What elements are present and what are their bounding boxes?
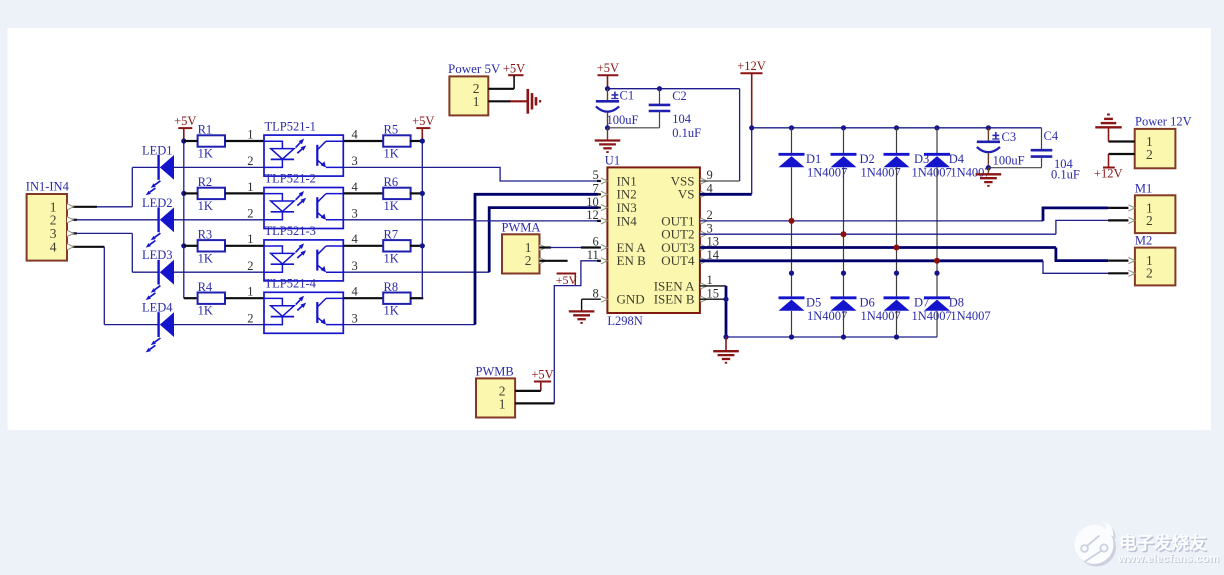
svg-text:ISEN B: ISEN B xyxy=(654,292,695,307)
svg-text:R2: R2 xyxy=(198,175,213,189)
junction top rail at diode column D3 xyxy=(894,125,899,130)
power +5V symbol on EN B net xyxy=(557,273,577,275)
svg-text:IN4: IN4 xyxy=(617,213,638,228)
svg-text:11: 11 xyxy=(587,248,599,262)
svg-text:LED3: LED3 xyxy=(142,248,173,262)
junction OUT1 at diode column D1 xyxy=(789,218,795,224)
svg-text:3: 3 xyxy=(352,259,358,273)
capacitor C1 100uF xyxy=(607,89,609,102)
wire diode column D4 xyxy=(936,167,938,297)
connector M1 xyxy=(1135,195,1176,233)
junction ground rail at ISEN column xyxy=(723,334,728,339)
junction +5V at C1 xyxy=(605,86,610,91)
svg-text:100uF: 100uF xyxy=(607,113,639,127)
wire stub PWMA pin2 (unconnected) xyxy=(540,260,568,262)
svg-text:1K: 1K xyxy=(198,251,213,265)
svg-text:C4: C4 xyxy=(1044,129,1059,143)
optocoupler TLP521-4 xyxy=(264,292,343,333)
svg-text:D8: D8 xyxy=(949,296,964,310)
svg-text:2: 2 xyxy=(247,311,253,325)
svg-text:VS: VS xyxy=(678,187,695,202)
junction at R5 xyxy=(420,138,425,143)
wire Power 5V pin1 to chassis ground xyxy=(488,100,511,102)
watermark logo elecfans xyxy=(1075,522,1117,567)
wire diode column D5 to ground rail xyxy=(791,311,793,337)
junction top rail at diode column D4 xyxy=(934,125,939,130)
resistor R5 1K xyxy=(383,135,410,146)
svg-text:M2: M2 xyxy=(1135,234,1152,248)
svg-text:2: 2 xyxy=(1146,213,1153,228)
svg-text:1: 1 xyxy=(247,232,253,246)
svg-text:L298N: L298N xyxy=(607,314,642,328)
wire R4 to optocoupler pin 1 xyxy=(225,297,264,299)
svg-text:4: 4 xyxy=(352,127,359,141)
optocoupler TLP521-1 xyxy=(264,135,343,176)
resistor R3 1K xyxy=(198,240,225,251)
wire LED2 to optocoupler pin 2 xyxy=(174,219,264,221)
svg-text:1N4007: 1N4007 xyxy=(807,309,847,323)
svg-text:1: 1 xyxy=(473,94,480,109)
junction +5V at C2 xyxy=(657,86,662,91)
svg-text:2: 2 xyxy=(1146,147,1153,162)
junction at R7 xyxy=(420,243,425,248)
junction OUT2 at diode column D2 xyxy=(841,231,847,237)
svg-text:1N4007: 1N4007 xyxy=(912,309,952,323)
svg-text:+12V: +12V xyxy=(1094,167,1123,181)
svg-text:Power 12V: Power 12V xyxy=(1135,115,1192,129)
capacitor C2 0.1uF xyxy=(659,89,661,105)
svg-text:3: 3 xyxy=(352,311,358,325)
wire IN1 net: connector pin1 to LED1 xyxy=(67,206,97,208)
ground below C3 xyxy=(987,168,989,175)
svg-text:电子发烧友: 电子发烧友 xyxy=(1119,533,1207,553)
wire LED1 to optocoupler pin 2 xyxy=(174,166,264,168)
junction OUT3 at diode column D3 xyxy=(894,245,900,251)
svg-text:D6: D6 xyxy=(860,296,875,310)
resistor R2 1K xyxy=(198,188,225,199)
wire R3 to optocoupler pin 1 xyxy=(225,245,264,247)
wire IN2 net: connector pin2 to LED2 xyxy=(67,219,77,221)
connector Power 5V xyxy=(449,76,488,115)
svg-text:M1: M1 xyxy=(1135,181,1152,195)
wire diode column D1 xyxy=(791,167,793,297)
junction dot on column D1 xyxy=(789,271,794,276)
svg-text:0.1uF: 0.1uF xyxy=(1051,168,1080,182)
svg-text:+5V: +5V xyxy=(556,273,578,287)
diode D8 1N4007 xyxy=(924,296,950,299)
svg-text:R5: R5 xyxy=(384,123,399,137)
svg-text:2: 2 xyxy=(1146,266,1153,281)
svg-text:LED1: LED1 xyxy=(142,143,173,157)
svg-text:3: 3 xyxy=(352,207,358,221)
diode D1 1N4007 xyxy=(791,128,793,155)
svg-text:www.elecfans.com: www.elecfans.com xyxy=(1117,553,1219,565)
wire net ch2: TLP521-2 pin3 to U1 IN2 xyxy=(343,219,475,221)
svg-text:3: 3 xyxy=(352,154,358,168)
svg-text:1: 1 xyxy=(247,285,253,299)
svg-text:+5V: +5V xyxy=(174,114,196,128)
wire +5V to R3 xyxy=(184,245,198,247)
svg-text:1: 1 xyxy=(499,396,506,411)
svg-text:1N4007: 1N4007 xyxy=(912,166,952,180)
svg-text:1N4007: 1N4007 xyxy=(807,166,847,180)
svg-text:1N4007: 1N4007 xyxy=(861,166,901,180)
svg-text:6: 6 xyxy=(593,235,599,249)
wire OUT3 net: U1 pin13 to M2 pin1 xyxy=(700,246,1056,249)
svg-text:2: 2 xyxy=(247,154,253,168)
svg-text:C3: C3 xyxy=(1002,130,1017,144)
junction ground rail at D6 xyxy=(841,334,846,339)
svg-text:15: 15 xyxy=(707,286,720,300)
wire OUT2 net: U1 pin3 to M1 pin2 xyxy=(700,233,1056,235)
svg-text:10: 10 xyxy=(586,195,599,209)
svg-text:2: 2 xyxy=(525,253,532,268)
svg-text:EN B: EN B xyxy=(617,253,647,268)
junction C1 bottom xyxy=(605,125,610,130)
junction on +5V rail at R2 xyxy=(181,191,186,196)
wire R1 to optocoupler pin 1 xyxy=(225,140,264,142)
svg-text:1N4007: 1N4007 xyxy=(950,309,990,323)
power +12V symbol at Power 12V pin2 xyxy=(1103,167,1115,169)
wire PWMA pin1 to U1 EN A xyxy=(540,246,552,248)
wire optocoupler pin 4 to R6 xyxy=(343,192,383,194)
svg-text:+5V: +5V xyxy=(412,114,434,128)
wire diode column D6 to ground rail xyxy=(843,311,845,337)
capacitor C4 0.1uF xyxy=(1041,128,1043,150)
svg-text:1: 1 xyxy=(247,127,253,141)
svg-text:8: 8 xyxy=(593,286,599,300)
wire Power 12V pin1 to ground xyxy=(1109,140,1135,142)
wire optocoupler pin 4 to R7 xyxy=(343,245,383,247)
wire +5V to R1 xyxy=(184,140,198,142)
svg-text:104: 104 xyxy=(672,112,692,126)
svg-text:IN1-IN4: IN1-IN4 xyxy=(26,180,70,194)
resistor R8 1K xyxy=(383,293,410,304)
svg-text:4: 4 xyxy=(352,285,359,299)
junction on +5V rail at R1 xyxy=(181,138,186,143)
wire +5V rail to VSS xyxy=(608,88,740,90)
svg-text:C1: C1 xyxy=(620,89,635,103)
svg-text:1N4007: 1N4007 xyxy=(861,309,901,323)
junction on +5V rail at R3 xyxy=(181,243,186,248)
junction dot on column D4 xyxy=(934,271,939,276)
wire C1 bottom to C2 bottom xyxy=(608,127,660,129)
wire R8 to +5V rail xyxy=(410,297,424,299)
svg-text:+5V: +5V xyxy=(531,367,553,381)
wire diode column D7 to ground rail xyxy=(896,311,898,337)
wire Power 12V pin2 to +12V xyxy=(1109,153,1135,155)
wire +5V vertical rail to R5-R8 xyxy=(421,141,423,298)
ground at ISEN rail xyxy=(725,337,727,351)
wire diode column D8 to ground rail xyxy=(936,311,938,337)
connector PWMA xyxy=(502,234,540,273)
wire +5V vertical rail to R1-R4 xyxy=(183,141,185,298)
wire optocoupler pin 4 to R5 xyxy=(343,140,383,142)
junction ground rail at D7 xyxy=(894,334,899,339)
wire IN4 net: connector pin4 to LED4 xyxy=(67,246,104,248)
svg-text:2: 2 xyxy=(247,259,253,273)
junction +12V at top rail xyxy=(749,125,754,130)
optocoupler TLP521-2 xyxy=(264,188,343,229)
schematic sheet xyxy=(8,28,1212,430)
wire OUT1 net: U1 pin2 to M1 pin1 xyxy=(700,220,1043,222)
wire R5 to +5V rail xyxy=(410,140,424,142)
svg-text:PWMA: PWMA xyxy=(502,221,541,235)
junction C3 bottom xyxy=(986,165,991,170)
svg-text:TLP521-1: TLP521-1 xyxy=(265,119,316,133)
svg-text:PWMB: PWMB xyxy=(476,365,514,379)
svg-text:4: 4 xyxy=(352,232,359,246)
wire R2 to optocoupler pin 1 xyxy=(225,192,264,194)
svg-text:1K: 1K xyxy=(198,304,213,318)
diode D7 1N4007 xyxy=(884,296,910,299)
svg-text:4: 4 xyxy=(352,180,359,194)
svg-text:R8: R8 xyxy=(384,280,399,294)
inverted ground at Power 12V pin1 xyxy=(1095,126,1121,128)
svg-text:2: 2 xyxy=(247,207,253,221)
svg-text:0.1uF: 0.1uF xyxy=(672,126,701,140)
junction top rail at diode column D2 xyxy=(841,125,846,130)
svg-text:TLP521-4: TLP521-4 xyxy=(265,277,317,291)
svg-text:1K: 1K xyxy=(198,199,213,213)
svg-text:R7: R7 xyxy=(384,228,399,242)
wire +12V top rail xyxy=(752,127,1042,129)
svg-text:D2: D2 xyxy=(860,152,875,166)
svg-text:U1: U1 xyxy=(605,153,620,167)
svg-text:TLP521-3: TLP521-3 xyxy=(265,224,316,238)
optocoupler TLP521-3 xyxy=(264,240,343,281)
diode D2 1N4007 xyxy=(843,128,845,155)
svg-text:1K: 1K xyxy=(198,147,213,161)
svg-text:9: 9 xyxy=(707,168,713,182)
junction ISEN B xyxy=(723,297,728,302)
wire R6 to +5V rail xyxy=(410,192,424,194)
svg-text:12: 12 xyxy=(586,208,599,222)
svg-text:+5V: +5V xyxy=(503,61,525,75)
svg-text:1K: 1K xyxy=(384,251,399,265)
resistor R7 1K xyxy=(383,240,410,251)
svg-text:1K: 1K xyxy=(384,147,399,161)
junction dot on column D2 xyxy=(841,271,846,276)
resistor R4 1K xyxy=(198,293,225,304)
wire U1 ISEN B to ground rail xyxy=(700,298,726,300)
wire IN3 net: connector pin3 to LED3 xyxy=(67,232,77,234)
svg-text:1K: 1K xyxy=(384,304,399,318)
wire LED3 to optocoupler pin 2 xyxy=(174,271,264,273)
connector M2 xyxy=(1135,248,1176,286)
svg-text:OUT4: OUT4 xyxy=(661,253,695,268)
wire Power 5V pin2 to +5V xyxy=(488,88,514,90)
wire diode column D2 xyxy=(843,167,845,297)
svg-text:R3: R3 xyxy=(198,228,213,242)
diode D6 1N4007 xyxy=(831,296,857,299)
wire net ch3: TLP521-3 pin3 to U1 IN3 xyxy=(343,271,489,273)
svg-text:Power 5V: Power 5V xyxy=(448,61,501,76)
chassis ground at Power 5V xyxy=(526,89,529,114)
wire U1 ISEN A to ground rail xyxy=(700,285,726,287)
wire optocoupler pin 4 to R8 xyxy=(343,297,383,299)
capacitor C3 100uF xyxy=(987,128,989,142)
svg-text:+5V: +5V xyxy=(597,61,619,75)
connector IN1-IN4 xyxy=(27,194,67,261)
junction OUT4 at diode column D4 xyxy=(934,258,940,264)
svg-text:C2: C2 xyxy=(672,89,687,103)
wire U1 GND pin 8 to ground xyxy=(582,298,608,300)
wire LED4 to optocoupler pin 2 xyxy=(174,324,264,326)
resistor R6 1K xyxy=(383,188,410,199)
junction dot on column D3 xyxy=(894,271,899,276)
svg-text:1: 1 xyxy=(247,180,253,194)
resistor R1 1K xyxy=(198,135,225,146)
svg-text:4: 4 xyxy=(50,239,57,254)
svg-text:D1: D1 xyxy=(806,152,821,166)
wire +12V to U1 VS xyxy=(751,128,753,195)
wire diode column D3 xyxy=(896,167,898,297)
junction at R6 xyxy=(420,191,425,196)
wire C3 bottom to C4 bottom xyxy=(988,167,1041,169)
junction top rail at C3 xyxy=(986,125,991,130)
svg-text:R6: R6 xyxy=(384,175,399,189)
svg-text:1K: 1K xyxy=(384,199,399,213)
svg-text:R1: R1 xyxy=(198,123,213,137)
svg-text:5: 5 xyxy=(593,168,599,182)
svg-text:GND: GND xyxy=(617,292,645,307)
svg-text:D5: D5 xyxy=(806,296,821,310)
svg-text:R4: R4 xyxy=(198,280,213,294)
svg-text:2: 2 xyxy=(707,208,713,222)
svg-text:7: 7 xyxy=(593,182,599,196)
svg-text:LED2: LED2 xyxy=(142,196,173,210)
junction ground rail at D5 xyxy=(789,334,794,339)
diode D3 1N4007 xyxy=(896,128,898,155)
wire R7 to +5V rail xyxy=(410,245,424,247)
svg-text:D4: D4 xyxy=(949,152,965,166)
svg-text:1: 1 xyxy=(707,273,713,287)
wire PWMB pin2 to +5V xyxy=(515,390,541,392)
wire net ch4: TLP521-4 pin3 to U1 IN4 xyxy=(343,324,475,326)
op-chip U1 L298N xyxy=(607,167,700,313)
ground at U1 GND xyxy=(569,310,595,312)
wire VSS stub xyxy=(700,180,740,182)
wire net ch1: TLP521-1 pin3 to U1 IN1 xyxy=(343,167,598,181)
diode D4 1N4007 xyxy=(936,128,938,155)
wire OUT4 net: U1 pin14 to M2 pin2 xyxy=(700,259,1043,262)
wire bottom ground rail xyxy=(726,336,937,338)
svg-text:+12V: +12V xyxy=(737,59,766,73)
svg-text:100uF: 100uF xyxy=(993,153,1025,167)
junction top rail at diode column D1 xyxy=(789,125,794,130)
svg-text:3: 3 xyxy=(707,221,713,235)
svg-text:TLP521-2: TLP521-2 xyxy=(265,172,316,186)
connector Power 12V xyxy=(1135,129,1176,168)
ground below C1 xyxy=(607,128,609,141)
connector PWMB xyxy=(476,378,515,417)
wire PWMB pin1 to U1 EN B xyxy=(515,402,554,404)
wire +5V to R2 xyxy=(184,192,198,194)
diode D5 1N4007 xyxy=(779,296,805,299)
